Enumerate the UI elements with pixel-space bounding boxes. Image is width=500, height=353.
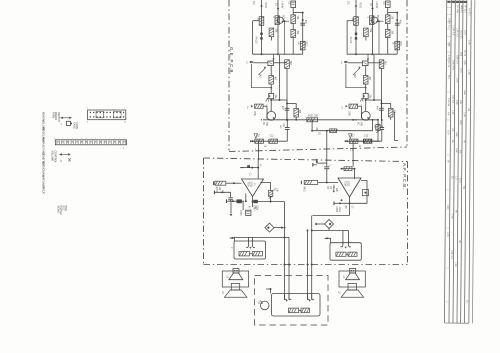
svg-text:2V: 2V <box>451 176 453 179</box>
tone unit box R <box>330 243 361 261</box>
resistor head R <box>301 308 309 313</box>
svg-text:G.E. P.C.B.: G.E. P.C.B. <box>229 47 234 75</box>
junction under U301 <box>232 200 234 202</box>
capacitor C5L <box>286 120 288 128</box>
svg-text:R17: R17 <box>256 136 261 138</box>
wire supply rail R <box>355 0 357 54</box>
svg-text:R311: R311 <box>304 41 306 47</box>
feed top cluster R <box>342 168 355 170</box>
svg-text:1,15V 7,4: 1,15V 7,4 <box>452 25 454 36</box>
svg-text:AA119: AA119 <box>255 37 258 44</box>
resistor R132 <box>330 129 337 133</box>
resistor R1L <box>259 17 264 26</box>
resistor R7L <box>255 104 264 108</box>
resistor R307 <box>237 199 242 203</box>
svg-text:C305: C305 <box>239 210 241 216</box>
wire right rail R <box>396 12 398 54</box>
output node L <box>252 197 254 208</box>
loudspeaker cabinet left <box>222 271 248 287</box>
resistor R401 <box>344 167 352 171</box>
svg-text:1,6V: 1,6V <box>467 70 469 75</box>
svg-text:6V 44: 6V 44 <box>463 50 465 57</box>
svg-text:2,2V: 2,2V <box>467 40 469 45</box>
svg-text:MONO: MONO <box>56 206 59 214</box>
AF PCB border bottom <box>204 264 408 266</box>
diode D1L <box>260 33 262 35</box>
resistor R7R <box>349 104 358 108</box>
speaker cone small left <box>229 273 243 280</box>
wire af feed line R <box>345 140 382 142</box>
tweeter right <box>350 269 356 273</box>
svg-text:C12: C12 <box>270 136 275 138</box>
svg-text:2,8V: 2,8V <box>455 100 457 105</box>
wire base divider R <box>378 21 380 54</box>
resistor R1R <box>354 17 359 26</box>
svg-text:5,6V 0,7: 5,6V 0,7 <box>456 55 458 64</box>
svg-text:+14,4V: +14,4V <box>375 1 377 9</box>
svg-text:VOLUME: VOLUME <box>51 151 54 162</box>
trimmer arrow R <box>353 68 360 75</box>
tone box entry dot L <box>231 237 233 239</box>
GE PCB border bottom <box>229 147 407 152</box>
svg-text:TAPE: TAPE <box>51 112 54 119</box>
AF PCB border left <box>203 158 205 265</box>
svg-text:2,2V 8V: 2,2V 8V <box>447 98 449 107</box>
resistor R306 <box>253 200 258 203</box>
svg-text:0,2V: 0,2V <box>459 120 461 125</box>
svg-text:UIT.: UIT. <box>42 191 46 196</box>
wire B drop R <box>373 55 375 100</box>
svg-text:CASS.: CASS. <box>73 122 76 130</box>
svg-text:LS: LS <box>342 275 344 278</box>
svg-text:12V 3,4: 12V 3,4 <box>451 95 453 104</box>
resistor R310 <box>239 252 250 256</box>
svg-text:0,9V: 0,9V <box>455 132 457 137</box>
svg-text:AF 271: AF 271 <box>468 8 471 16</box>
AF PCB border right <box>407 162 409 265</box>
service table verticals <box>444 0 446 323</box>
resistor R2R <box>385 15 390 24</box>
diamond connector R <box>325 220 334 229</box>
svg-text:REC: REC <box>62 206 65 211</box>
wire second drop L <box>288 237 290 300</box>
svg-text:1: 1 <box>100 138 101 140</box>
wire af feed line L <box>250 140 287 142</box>
svg-text:RADIO: RADIO <box>54 112 57 120</box>
deck entry wire <box>270 288 272 290</box>
capacitor C2L <box>300 22 305 24</box>
svg-text:M: M <box>257 302 259 304</box>
input terminal 1L <box>213 181 215 185</box>
service table row ticks <box>447 6 451 8</box>
flag 1 left <box>258 141 260 160</box>
capacitor C305 <box>242 201 244 210</box>
svg-text:R131 220: R131 220 <box>308 116 319 118</box>
tone box droppers L <box>246 242 248 248</box>
GE PCB border left <box>228 0 230 151</box>
resistor R6L <box>270 66 272 76</box>
svg-text:CONN.: CONN. <box>75 122 78 130</box>
wire left rail L <box>252 21 254 55</box>
svg-text:A.F. P.C.B.: A.F. P.C.B. <box>402 163 407 189</box>
svg-text:0,65: 0,65 <box>463 90 465 95</box>
svg-text:C12: C12 <box>364 136 369 138</box>
svg-text:485 0,2: 485 0,2 <box>460 5 462 13</box>
resistor R9R <box>349 139 358 143</box>
svg-text:AA119: AA119 <box>349 37 352 44</box>
pot loop wire R <box>346 64 366 88</box>
op-amp U401 <box>338 178 361 197</box>
svg-text:1: 1 <box>72 138 73 140</box>
resistor R402 <box>304 180 318 184</box>
AF PCB border top <box>204 158 408 162</box>
wire B drop L <box>279 55 281 100</box>
wire output drop L <box>284 202 286 301</box>
op-amp U301 <box>242 179 264 197</box>
svg-text:PLAYED: PLAYED <box>59 206 62 216</box>
wire base divider L <box>284 21 286 54</box>
svg-text:1011: 1011 <box>250 182 254 188</box>
wire feed drop R <box>352 161 354 167</box>
wire second drop R <box>307 231 309 301</box>
svg-text:BC: BC <box>262 122 264 126</box>
output node R <box>349 197 351 216</box>
connector CN1 pins <box>90 112 91 113</box>
svg-text:1: 1 <box>124 138 125 140</box>
tone unit box L <box>234 241 266 259</box>
svg-text:R311: R311 <box>399 41 401 47</box>
svg-text:SWITCH: SWITCH <box>57 112 60 122</box>
svg-text:BC548: BC548 <box>376 15 378 23</box>
svg-text:100u: 100u <box>338 207 340 213</box>
svg-text:3,9V 0,3: 3,9V 0,3 <box>450 250 452 259</box>
woofer frame left <box>231 284 239 291</box>
woofer frame right <box>348 284 356 291</box>
switch contact box <box>67 121 71 125</box>
input terminal 2R <box>333 202 335 206</box>
svg-text:1,8V: 1,8V <box>454 262 456 267</box>
resistor R9L <box>255 139 264 143</box>
signal flag L <box>254 134 258 139</box>
tone box droppers R <box>342 231 344 244</box>
junction dots on AF bottom border <box>284 264 286 266</box>
pot loop wire L <box>251 64 271 88</box>
wire base link L <box>282 20 290 22</box>
resistor R301 <box>215 181 226 185</box>
wire output run R <box>313 215 350 217</box>
svg-text:BF 512: BF 512 <box>464 5 466 13</box>
svg-text:1: 1 <box>58 138 59 140</box>
resistor R2L <box>291 15 296 24</box>
svg-text:1: 1 <box>114 138 115 140</box>
svg-text:C404: C404 <box>335 207 337 213</box>
tone box feed wire L <box>234 236 290 238</box>
capacitor C4R <box>381 100 383 108</box>
connector CN1 bridges <box>96 111 104 117</box>
resistor R8R <box>390 103 392 108</box>
svg-text:CONTROL: CONTROL <box>53 151 56 164</box>
svg-text:R301: R301 <box>215 187 217 193</box>
feed terminal top L <box>240 167 244 169</box>
svg-text:+14,4V: +14,4V <box>280 1 282 9</box>
wire right drop <box>377 120 379 142</box>
cassette deck body <box>272 294 321 317</box>
capacitor C5R <box>381 120 383 128</box>
connector block CN1 <box>88 110 126 120</box>
svg-text:1,9V: 1,9V <box>451 110 453 115</box>
svg-text:7,5V: 7,5V <box>450 214 452 219</box>
svg-text:1: 1 <box>105 138 106 140</box>
svg-text:150k: 150k <box>253 111 255 117</box>
svg-text:1: 1 <box>76 138 77 140</box>
transistor T1R <box>372 0 374 54</box>
diode D1R <box>355 33 357 35</box>
svg-text:2,6V: 2,6V <box>455 148 457 153</box>
svg-text:0,6V 8,4V: 0,6V 8,4V <box>452 60 454 71</box>
input terminal 2L <box>213 191 215 195</box>
resistor R5R <box>379 60 384 69</box>
resistor R4R <box>364 28 369 37</box>
svg-text:4,1V: 4,1V <box>463 30 465 35</box>
service table bottom rule <box>444 322 468 324</box>
svg-text:1: 1 <box>81 138 82 140</box>
svg-text:R303: R303 <box>264 3 266 9</box>
resistor R305 <box>268 191 272 197</box>
resistor R3R <box>395 41 400 50</box>
svg-text:9,1V: 9,1V <box>459 68 461 73</box>
svg-text:1,4V: 1,4V <box>463 112 465 117</box>
svg-text:LS: LS <box>338 291 340 294</box>
loudspeaker cabinet right <box>339 271 365 287</box>
svg-text:LS: LS <box>221 291 223 294</box>
svg-text:0,1V: 0,1V <box>447 130 449 135</box>
wire mid link <box>311 120 313 131</box>
connector CN2 pins <box>56 140 58 144</box>
capacitor C401 <box>326 163 328 166</box>
resistor R133 <box>376 125 380 131</box>
head connector hooks <box>285 294 287 300</box>
speaker cone small right <box>346 273 360 280</box>
svg-text:IN: IN <box>42 137 46 140</box>
feedback loop R <box>350 181 368 204</box>
resistor R3L <box>300 41 305 50</box>
resistor R5L <box>285 60 290 69</box>
wire base link R <box>376 20 384 22</box>
svg-text:BC: BC <box>357 122 359 126</box>
svg-text:R17: R17 <box>351 136 356 138</box>
svg-text:5V1: 5V1 <box>447 75 449 80</box>
ground arrow L <box>230 201 232 213</box>
motor symbol <box>260 301 269 310</box>
wire right rail L <box>302 12 304 54</box>
service table header band <box>447 1 450 3</box>
wire bottom bus L <box>253 53 303 55</box>
cassette deck dashed outline <box>255 276 329 326</box>
resistor R6R <box>365 66 367 76</box>
wire far right stub <box>394 112 396 141</box>
resistor head L <box>289 308 299 313</box>
svg-text:LS: LS <box>225 275 227 278</box>
svg-text:3,8V: 3,8V <box>463 60 465 65</box>
svg-text:6,2V: 6,2V <box>459 178 461 183</box>
svg-text:1: 1 <box>62 138 63 140</box>
switch box S1L <box>268 61 274 66</box>
svg-text:1011: 1011 <box>347 181 351 187</box>
svg-text:0,4V: 0,4V <box>446 205 448 210</box>
svg-text:8V: 8V <box>454 210 456 213</box>
svg-text:1: 1 <box>119 138 120 140</box>
svg-text:1: 1 <box>109 138 110 140</box>
resistor R8L <box>295 103 297 108</box>
svg-text:POS.: POS. <box>64 206 67 212</box>
tweeter left <box>233 269 239 273</box>
svg-text:0,65V 2,1: 0,65V 2,1 <box>448 18 450 29</box>
svg-text:150k: 150k <box>348 111 350 117</box>
wire right af drop <box>326 131 328 163</box>
capacitor C302 <box>230 192 232 197</box>
svg-text:1,2V 3,3: 1,2V 3,3 <box>456 28 458 37</box>
direction arrows lower <box>59 153 70 155</box>
svg-text:1: 1 <box>86 138 87 140</box>
trimmer arrow L <box>259 68 266 75</box>
arrow gnd R <box>333 187 335 191</box>
feed bend R <box>316 159 318 163</box>
transistor T2R <box>361 111 370 120</box>
lambda mark L <box>266 98 268 102</box>
resistor R410 <box>336 252 346 256</box>
svg-text:1: 1 <box>91 138 92 140</box>
svg-text:4,7V: 4,7V <box>455 78 457 83</box>
tone box entry dot R <box>326 237 328 239</box>
svg-text:16V: 16V <box>279 125 281 129</box>
capacitor C301 <box>247 165 250 168</box>
wire af feed r end <box>353 140 379 142</box>
svg-text:R303: R303 <box>358 3 360 9</box>
resistor R2bR <box>385 30 390 38</box>
svg-text:BC: BC <box>462 186 464 190</box>
resistor R405 <box>362 190 368 196</box>
woofer cone right <box>341 290 363 297</box>
transistor T1L <box>277 0 279 54</box>
svg-text:3V: 3V <box>447 160 449 163</box>
svg-text:1: 1 <box>95 138 96 140</box>
resistor R311 <box>252 252 262 256</box>
wire left rail R <box>346 21 348 55</box>
svg-text:0,1V BC: 0,1V BC <box>460 30 462 39</box>
signal flag R <box>349 134 353 139</box>
resistor R2bL <box>291 30 296 38</box>
wire emitter bus long <box>263 119 378 121</box>
wire supply rail L <box>261 0 263 54</box>
svg-text:BC548: BC548 <box>282 15 284 23</box>
svg-text:1,7V: 1,7V <box>446 232 448 237</box>
direction arrows upper <box>60 117 71 119</box>
wire tone feed R <box>328 229 330 231</box>
svg-text:2,1 745: 2,1 745 <box>456 5 458 13</box>
GE PCB border right <box>406 0 408 146</box>
resistor R134 <box>364 139 372 143</box>
svg-text:0,8V: 0,8V <box>447 42 449 47</box>
woofer cone left <box>225 290 247 297</box>
transistor T2L <box>267 111 276 120</box>
input terminal 1R <box>300 181 302 185</box>
svg-text:16V: 16V <box>374 125 376 129</box>
svg-text:R401: R401 <box>303 186 305 192</box>
svg-text:4,5V 0,2 1V: 4,5V 0,2 1V <box>447 55 449 68</box>
capacitor C4L <box>286 100 288 108</box>
wire inverting input link <box>245 193 247 201</box>
resistor R131 <box>307 118 318 122</box>
switch box S1R <box>362 61 368 66</box>
capacitor C2R <box>395 22 400 24</box>
resistor R411 <box>348 252 357 256</box>
svg-text:9V: 9V <box>451 140 453 143</box>
wire bottom bus R <box>347 53 397 55</box>
capacitor C3L <box>269 94 274 99</box>
feedback loop L <box>260 183 270 202</box>
resistor R4L <box>269 28 274 37</box>
resistor R10L <box>269 139 278 143</box>
capacitor C3R <box>363 94 368 99</box>
flag 2 right <box>352 141 354 160</box>
connector strip CN2 <box>55 140 126 145</box>
svg-text:1: 1 <box>67 138 68 140</box>
resistor R10R <box>363 139 372 143</box>
diamond connector L <box>265 223 274 232</box>
wiper mark <box>68 158 71 161</box>
lambda mark R <box>360 98 362 102</box>
